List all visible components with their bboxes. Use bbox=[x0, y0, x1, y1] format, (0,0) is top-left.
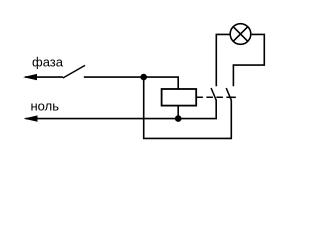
wire: phase line from arrow to switch bbox=[25, 76, 63, 78]
dashed mechanical link from coil to contacts bbox=[196, 96, 233, 98]
node: neutral junction dot at coil bbox=[175, 115, 182, 122]
wire: contact K1.1 lower terminal to neutral line bbox=[215, 100, 217, 119]
wire: relay coil bottom stub bbox=[177, 106, 179, 119]
node: phase junction dot bbox=[140, 74, 147, 81]
wire: lamp left lead down to contact K1.1 upper terminal bbox=[216, 34, 230, 86]
arrowhead (ноль, pointing left) bbox=[24, 115, 38, 121]
relay coil K1 bbox=[162, 89, 197, 106]
wire: phase line from switch to relay coil top bbox=[84, 77, 178, 89]
contact K1.2 blade bbox=[226, 88, 231, 100]
wire: branch from phase junction down, across bottom, up to contact K1.2 bbox=[144, 77, 232, 138]
switch S1 blade (open) bbox=[63, 65, 85, 78]
wire: neutral line bbox=[26, 118, 218, 120]
arrowhead (фаза, pointing left) bbox=[23, 74, 37, 80]
contact K1.1 blade bbox=[211, 88, 216, 100]
svg-text:фаза: фаза bbox=[32, 55, 64, 70]
svg-text:ноль: ноль bbox=[31, 98, 60, 113]
lamp HL1 (circle with cross) bbox=[230, 24, 251, 45]
wire: contact K1.2 upper terminal to lamp right lead bbox=[233, 34, 264, 86]
dashed link: final dash right of contact K1.2 bbox=[232, 96, 235, 98]
